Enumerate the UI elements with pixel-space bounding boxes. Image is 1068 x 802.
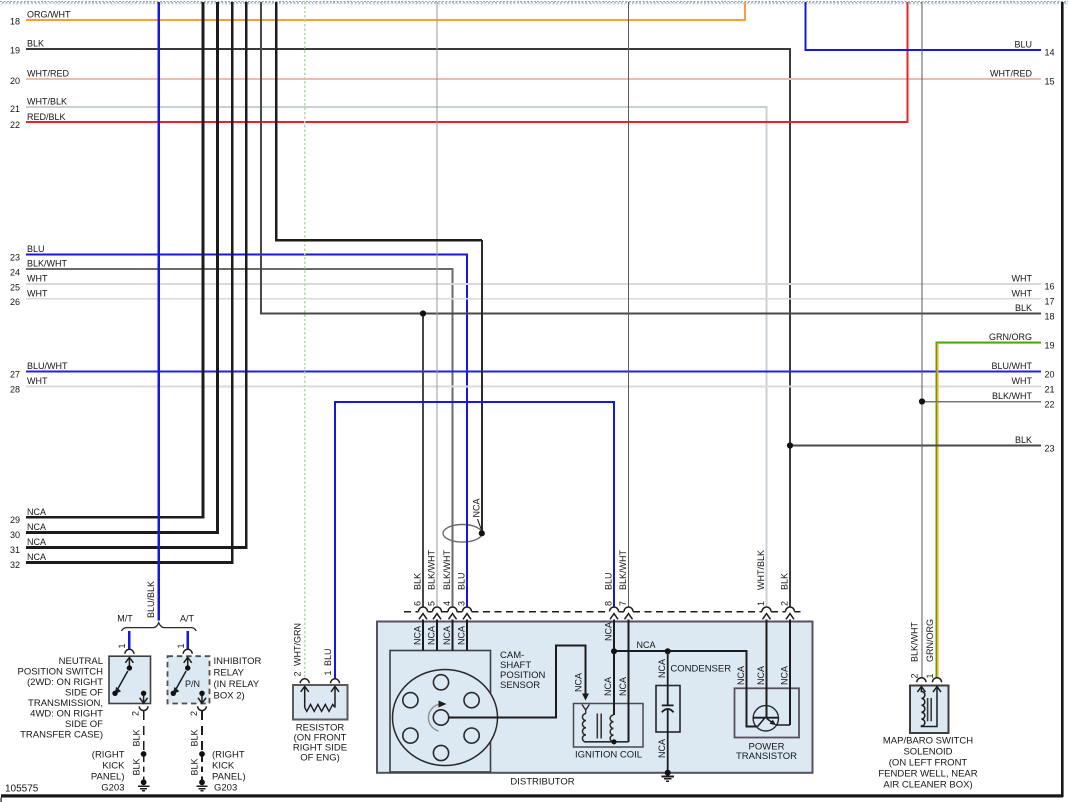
svg-text:G203: G203 (214, 783, 237, 794)
wire branch node to distributor pin6 (422, 314, 424, 608)
wire BLU resistor pin1 to distributor pin8 (335, 402, 614, 679)
wire 26 WHT to right 17 (26, 298, 1041, 300)
entry arrow pin1 A/T (184, 657, 192, 662)
page bottom-left corner tick (1, 798, 2, 802)
connector bump MAP pin1 (932, 678, 941, 683)
svg-text:BLU: BLU (27, 244, 45, 254)
wire pin7 to ignition coil (628, 619, 630, 742)
ignition coil core (596, 714, 598, 739)
svg-text:BLK: BLK (1015, 435, 1032, 445)
svg-text:BLK: BLK (131, 729, 141, 746)
page top dashed border (0, 1, 1068, 4)
svg-text:1: 1 (925, 673, 935, 678)
svg-text:23: 23 (1045, 444, 1055, 454)
svg-text:1: 1 (117, 643, 127, 648)
power transistor collector diagonal with arrow (767, 719, 774, 724)
wire NCA net coil to power transistor base (614, 651, 758, 726)
svg-text:BLU: BLU (456, 572, 466, 590)
svg-text:WHT/RED: WHT/RED (990, 69, 1032, 79)
connector arrows below bumps (419, 614, 794, 620)
svg-text:23: 23 (10, 253, 20, 263)
contact node M/T lower-left (112, 691, 117, 696)
svg-text:NEUTRAL: NEUTRAL (59, 656, 103, 667)
svg-text:OF ENG): OF ENG) (300, 753, 340, 764)
svg-text:BLK/WHT: BLK/WHT (910, 621, 920, 662)
wire NCA from top to pickup loop (276, 2, 482, 240)
svg-text:17: 17 (1045, 297, 1055, 307)
label right kick panel M/T (91, 750, 125, 794)
svg-text:BLK/WHT: BLK/WHT (992, 391, 1033, 401)
connector bump M/T pin2 (139, 706, 148, 710)
svg-text:WHT: WHT (1012, 274, 1033, 284)
svg-text:NCA: NCA (637, 640, 656, 650)
svg-text:GRN/ORG: GRN/ORG (925, 619, 935, 662)
wire 28 WHT to right 21 (26, 386, 1041, 388)
svg-text:NCA: NCA (780, 666, 790, 685)
wire pin5 to sensor (436, 619, 438, 650)
svg-text:IGNITION COIL: IGNITION COIL (575, 750, 642, 761)
wire 22 RED/BLK (26, 2, 908, 122)
wire right 18 BLK from top via node (261, 2, 1041, 314)
camshaft sensor rotor circle (393, 670, 498, 766)
svg-text:22: 22 (10, 120, 20, 130)
svg-text:WHT/RED: WHT/RED (27, 69, 69, 79)
power transistor box (735, 688, 800, 737)
wire BLU stub M/T (128, 631, 130, 649)
svg-text:105575: 105575 (5, 784, 39, 795)
svg-text:(RIGHT: (RIGHT (212, 750, 245, 761)
svg-text:31: 31 (10, 545, 20, 555)
connector bump resistor pin1 (331, 679, 340, 684)
splice node A/T 2 (199, 779, 205, 785)
wire 24 BLK/WHT to distributor pin4 (26, 269, 453, 607)
svg-text:WHT: WHT (27, 274, 48, 284)
wire pin8 to ignition coil (613, 619, 615, 715)
power transistor emitter diagonal (758, 718, 765, 726)
svg-text:TRANSISTOR: TRANSISTOR (736, 751, 797, 762)
wire right 23 BLK from node on pin2 wire (790, 445, 1041, 447)
svg-text:BLK: BLK (779, 573, 789, 590)
svg-text:NCA: NCA (412, 626, 422, 645)
svg-text:2: 2 (131, 711, 141, 716)
svg-text:NCA: NCA (603, 677, 613, 696)
svg-text:BLK: BLK (27, 39, 44, 49)
ignition coil primary winding (582, 714, 586, 742)
svg-text:PANEL): PANEL) (91, 772, 125, 783)
svg-text:2: 2 (189, 711, 199, 716)
relay arm A/T (176, 671, 187, 690)
ignition coil secondary winding (610, 715, 613, 742)
svg-text:DISTRIBUTOR: DISTRIBUTOR (510, 776, 574, 787)
svg-text:AIR CLEANER BOX): AIR CLEANER BOX) (883, 780, 972, 791)
svg-text:BOX 2): BOX 2) (214, 691, 245, 702)
distributor assembly box (377, 622, 813, 773)
svg-text:21: 21 (1045, 385, 1055, 395)
svg-text:NCA: NCA (472, 498, 482, 517)
svg-text:BLK: BLK (190, 758, 200, 775)
svg-text:NCA: NCA (603, 622, 613, 641)
wire MAP solenoid pin2 BLK/WHT vertical (921, 2, 923, 678)
svg-text:BLK: BLK (1015, 303, 1032, 313)
label neutral position switch block (18, 656, 104, 741)
svg-text:24: 24 (10, 268, 20, 278)
label resistor block (293, 723, 347, 764)
svg-text:P/N: P/N (185, 679, 200, 689)
svg-text:NCA: NCA (756, 666, 766, 685)
svg-text:BLK/WHT: BLK/WHT (618, 549, 628, 590)
wire pin3 to sensor (466, 619, 468, 650)
rotor hole lower-right (464, 728, 479, 743)
svg-text:4WD: ON RIGHT: 4WD: ON RIGHT (30, 709, 103, 720)
svg-text:27: 27 (10, 370, 20, 380)
power transistor base bar (753, 717, 778, 719)
svg-text:WHT: WHT (27, 288, 48, 298)
spark gap Y electrode (582, 705, 589, 714)
svg-text:MAP/BARO SWITCH: MAP/BARO SWITCH (883, 736, 973, 747)
svg-text:6: 6 (412, 601, 422, 606)
svg-text:NCA: NCA (657, 659, 667, 678)
svg-text:NCA: NCA (657, 739, 667, 758)
svg-text:1: 1 (176, 643, 186, 648)
wire 31 NCA (26, 2, 246, 548)
MAP solenoid entry arrows (917, 687, 941, 692)
svg-text:21: 21 (10, 104, 20, 114)
connector bump M/T pin1 (125, 649, 134, 653)
svg-text:2: 2 (293, 671, 303, 676)
junction node on BLK 18 wire (420, 310, 426, 316)
wire 19 BLK to distributor pin2 (26, 49, 790, 607)
svg-text:WHT: WHT (1012, 288, 1033, 298)
internal NCA labels (412, 622, 789, 758)
component texts (500, 650, 797, 787)
svg-text:WHT/BLK: WHT/BLK (756, 550, 766, 590)
svg-text:16: 16 (1045, 282, 1055, 292)
svg-text:15: 15 (1045, 77, 1055, 87)
wire BLU stub A/T (186, 631, 188, 649)
rotor hole upper-right (464, 693, 479, 708)
svg-text:NCA: NCA (618, 677, 628, 696)
connector bump A/T pin1 (183, 649, 192, 653)
camshaft position sensor box (390, 651, 491, 773)
inhibitor relay K1 box dashed (168, 656, 210, 703)
splice node A/T (199, 751, 205, 757)
svg-text:1: 1 (756, 601, 766, 606)
junction node pin8/NCA (611, 648, 617, 654)
svg-text:PANEL): PANEL) (212, 772, 246, 783)
contact node M/T lower-right (141, 691, 146, 696)
switch arm M/T (117, 671, 128, 690)
svg-text:29: 29 (10, 515, 20, 525)
svg-text:ORG/WHT: ORG/WHT (27, 10, 71, 20)
wire right 14 BLU (806, 2, 1042, 50)
svg-text:7: 7 (618, 601, 628, 606)
rotor centre hub circle (433, 710, 448, 725)
svg-text:BLK/WHT: BLK/WHT (426, 549, 436, 590)
svg-text:SIDE OF: SIDE OF (65, 688, 103, 699)
leader line NCA to loop node (478, 519, 482, 530)
svg-text:CONDENSER: CONDENSER (670, 664, 731, 675)
svg-text:BLU: BLU (603, 572, 613, 590)
condenser wire lower to ground (667, 709, 669, 773)
distributor connector dashed line (404, 611, 801, 613)
exit wire A/T pin2 (201, 696, 203, 703)
svg-text:NCA: NCA (27, 552, 46, 562)
svg-text:22: 22 (1045, 400, 1055, 410)
svg-text:8: 8 (603, 601, 613, 606)
wire right 19 GRN/ORG to MAP solenoid pin1 (936, 342, 1041, 677)
junction node on BLK/WHT 22 wire (919, 398, 925, 404)
svg-text:BLK: BLK (412, 573, 422, 590)
svg-text:26: 26 (10, 297, 20, 307)
MAP solenoid coil winding (921, 687, 937, 727)
entry arrow pin1 M/T (125, 657, 133, 662)
svg-text:19: 19 (1045, 341, 1055, 351)
ignition coil bottom wire (585, 741, 629, 743)
svg-text:NCA: NCA (426, 626, 436, 645)
svg-text:5: 5 (426, 601, 436, 606)
wire right 22 BLK/WHT from node on MAP wire (922, 401, 1041, 403)
svg-text:WHT/GRN: WHT/GRN (293, 623, 303, 666)
resistor R1 zigzag element (305, 704, 335, 711)
svg-text:BLU/WHT: BLU/WHT (27, 361, 68, 371)
label MAP/BARO switch block (878, 736, 977, 791)
svg-text:RED/BLK: RED/BLK (27, 112, 66, 122)
svg-text:M/T: M/T (117, 613, 133, 623)
svg-text:BLU: BLU (323, 648, 333, 666)
svg-text:KICK: KICK (212, 761, 235, 772)
svg-text:A/T: A/T (180, 613, 195, 623)
svg-text:SIDE OF: SIDE OF (65, 719, 103, 730)
svg-text:NCA: NCA (736, 666, 746, 685)
svg-text:25: 25 (10, 283, 20, 293)
wire WHT/GRN dashed vertical to resistor pin2 (304, 2, 306, 679)
svg-text:WHT/BLK: WHT/BLK (27, 97, 67, 107)
junction node condenser/NCA (665, 648, 671, 654)
ground G203 A/T (196, 786, 207, 791)
svg-text:NCA: NCA (27, 507, 46, 517)
condenser C box (656, 686, 680, 733)
svg-text:(IN RELAY: (IN RELAY (214, 679, 260, 690)
svg-text:NCA: NCA (574, 673, 584, 692)
svg-text:BLU/BLK: BLU/BLK (146, 581, 156, 618)
svg-text:BLU: BLU (1014, 40, 1032, 50)
MAP solenoid core (927, 698, 929, 721)
brace M/T A/T split (122, 623, 197, 631)
connector bump resistor pin2 (300, 679, 309, 684)
wire BLU/BLK vertical to M/T A/T brace (157, 2, 159, 621)
resistor R1 box (293, 685, 348, 720)
label inhibitor relay block (214, 656, 262, 702)
svg-text:NCA: NCA (27, 522, 46, 532)
junction node on pickup loop (479, 530, 485, 536)
condenser top plate (662, 704, 674, 706)
M/T switch internals (117, 657, 147, 703)
power transistor circle (753, 706, 778, 731)
connector bump A/T pin2 (198, 706, 207, 710)
wire 30 NCA (26, 2, 218, 533)
wire to distributor pin5 BLK/WHT vertical (436, 2, 438, 607)
junction node at distributor case (665, 770, 671, 776)
wire 25 WHT to right 16 (26, 283, 1041, 285)
svg-text:(ON LEFT FRONT: (ON LEFT FRONT (889, 758, 968, 769)
svg-text:28: 28 (10, 385, 20, 395)
ground G203 M/T (138, 786, 149, 791)
wire pin4 to sensor (452, 619, 454, 650)
splice node M/T 2 (141, 779, 147, 785)
A/T relay internals (176, 657, 206, 703)
svg-text:20: 20 (1045, 370, 1055, 380)
svg-text:14: 14 (1045, 48, 1055, 58)
svg-text:4: 4 (442, 601, 452, 606)
svg-text:NCA: NCA (442, 626, 452, 645)
svg-text:2: 2 (910, 673, 920, 678)
ignition coil box (574, 704, 644, 748)
svg-text:(RIGHT: (RIGHT (92, 750, 125, 761)
svg-text:3: 3 (456, 601, 466, 606)
rotor hole upper-left (403, 693, 418, 708)
wire 18 ORG/WHT (26, 2, 745, 20)
svg-text:G203: G203 (101, 783, 124, 794)
rotor hole top (433, 675, 448, 690)
svg-text:TRANSMISSION,: TRANSMISSION, (28, 698, 103, 709)
contact node A/T lower-left (171, 691, 176, 696)
svg-text:SENSOR: SENSOR (500, 680, 540, 691)
wire 20 WHT/RED to right 15 (26, 78, 1041, 80)
junction node coil bottom (611, 739, 616, 744)
junction node on BLK 23 wire (787, 442, 793, 448)
wire pin6 to sensor (422, 619, 424, 650)
page right border (1061, 2, 1064, 797)
wire 32 NCA (26, 2, 232, 563)
svg-text:FENDER WELL, NEAR: FENDER WELL, NEAR (878, 769, 977, 780)
wire pin1 to power transistor collector (766, 619, 768, 717)
distributor internal wires (423, 619, 790, 742)
condenser wire upper (667, 651, 669, 705)
ground symbol condenser (661, 776, 674, 781)
wire to distributor pin7 BLK/WHT vertical (628, 2, 630, 607)
spark gap wire from rotor (448, 646, 585, 718)
wire BLK M/T to ground (143, 711, 145, 785)
contact node A/T top (185, 665, 190, 670)
svg-text:1: 1 (323, 670, 333, 675)
resistor leads and arrows (301, 686, 339, 707)
rotation arrow arc (428, 704, 439, 731)
rotor hole bottom (433, 745, 448, 760)
neutral position switch S1 box (109, 656, 151, 703)
rotor hole lower-left (403, 728, 418, 743)
svg-text:TRANSFER CASE): TRANSFER CASE) (20, 730, 103, 741)
contact node A/T lower-right (199, 691, 204, 696)
connector bump MAP pin2 (917, 678, 926, 683)
connector bumps pins 6 5 4 3 8 7 1 2 (419, 607, 795, 612)
svg-text:NCA: NCA (27, 537, 46, 547)
svg-text:GRN/ORG: GRN/ORG (989, 332, 1032, 342)
svg-text:18: 18 (1045, 312, 1055, 322)
svg-text:RELAY: RELAY (214, 668, 245, 679)
wire pin2 to power transistor emitter (789, 619, 791, 725)
svg-text:SOLENOID: SOLENOID (903, 747, 952, 758)
page bottom border (1, 794, 1063, 797)
wire 23 BLU to distributor pin3 (26, 255, 467, 608)
wire BLK A/T to ground (201, 711, 203, 785)
svg-text:(2WD: ON RIGHT: (2WD: ON RIGHT (27, 677, 103, 688)
svg-text:BLU/WHT: BLU/WHT (992, 361, 1033, 371)
svg-text:18: 18 (10, 17, 20, 27)
svg-text:WHT: WHT (1012, 376, 1033, 386)
contact node M/T top (127, 665, 132, 670)
svg-text:INHIBITOR: INHIBITOR (214, 656, 262, 667)
wire 21 WHT/BLK to distributor pin1 (26, 107, 767, 607)
svg-text:WHT: WHT (27, 376, 48, 386)
pickup coil loop ellipse (443, 525, 482, 543)
svg-text:BLK/WHT: BLK/WHT (27, 259, 68, 269)
svg-text:KICK: KICK (102, 761, 125, 772)
svg-text:NCA: NCA (456, 626, 466, 645)
svg-text:2: 2 (779, 601, 789, 606)
MAP/BARO switch solenoid L1 box (910, 686, 949, 734)
svg-text:30: 30 (10, 530, 20, 540)
wire 27 BLU/WHT to right 20 (26, 371, 1041, 373)
wire 29 NCA (26, 2, 203, 517)
condenser curved plate (662, 709, 674, 712)
pin labels above connector (412, 549, 789, 606)
exit wire M/T pin2 (143, 696, 145, 703)
svg-text:BLK: BLK (131, 758, 141, 775)
svg-text:20: 20 (10, 76, 20, 86)
svg-text:BLK/WHT: BLK/WHT (442, 549, 452, 590)
splice node M/T (141, 751, 147, 757)
svg-text:POSITION SWITCH: POSITION SWITCH (18, 667, 104, 678)
svg-text:19: 19 (10, 46, 20, 56)
svg-text:32: 32 (10, 560, 20, 570)
label right kick panel A/T (212, 750, 246, 794)
svg-text:BLK: BLK (190, 729, 200, 746)
